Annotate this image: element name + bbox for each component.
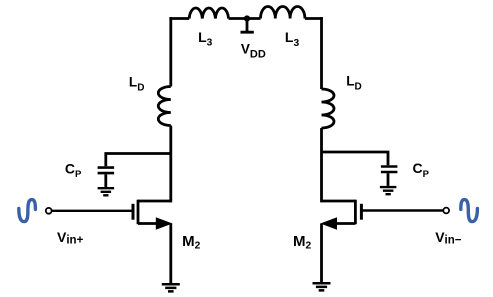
inductor LD (right) bbox=[322, 89, 335, 128]
power VDD symbol bbox=[241, 19, 254, 33]
ground (left Cp) bbox=[98, 188, 115, 195]
wire: left Cp branch bbox=[106, 154, 171, 167]
wire: left source to ground bbox=[169, 224, 172, 284]
wire: right source to ground bbox=[320, 224, 323, 283]
terminal: left input bbox=[46, 208, 52, 214]
inductor L3 (right) bbox=[261, 6, 305, 18]
inductor L3 (left) bbox=[189, 8, 228, 19]
wire: top rail right segment bbox=[305, 17, 323, 20]
inductor LD (left) bbox=[158, 87, 171, 126]
wire: left Cp to ground bbox=[104, 174, 107, 187]
wire: left branch lower vertical bbox=[169, 126, 172, 203]
wire: left branch upper vertical bbox=[169, 17, 172, 86]
wire: right Cp to ground bbox=[387, 173, 390, 186]
wire: right branch lower vertical bbox=[320, 128, 323, 202]
node VDD junction dot bbox=[244, 15, 250, 21]
wire: left gate bbox=[52, 210, 133, 212]
wire: top rail left segment bbox=[169, 17, 189, 20]
transistor M2 (right) bbox=[320, 200, 361, 230]
capacitor Cp (left) bbox=[98, 168, 115, 174]
ground (right source) bbox=[313, 283, 331, 290]
wire: right gate bbox=[361, 209, 445, 211]
source: Vin- sine symbol bbox=[461, 200, 478, 222]
wire: right branch upper vertical bbox=[320, 17, 323, 89]
capacitor Cp (right) bbox=[381, 167, 398, 173]
source: Vin+ sine symbol bbox=[19, 200, 36, 222]
ground (right Cp) bbox=[380, 187, 397, 194]
wire: right Cp branch bbox=[322, 152, 389, 165]
ground (left source) bbox=[162, 284, 180, 291]
terminal: right input bbox=[443, 208, 449, 214]
wire: top rail middle segment bbox=[229, 17, 261, 20]
transistor M2 (left) bbox=[133, 200, 173, 230]
